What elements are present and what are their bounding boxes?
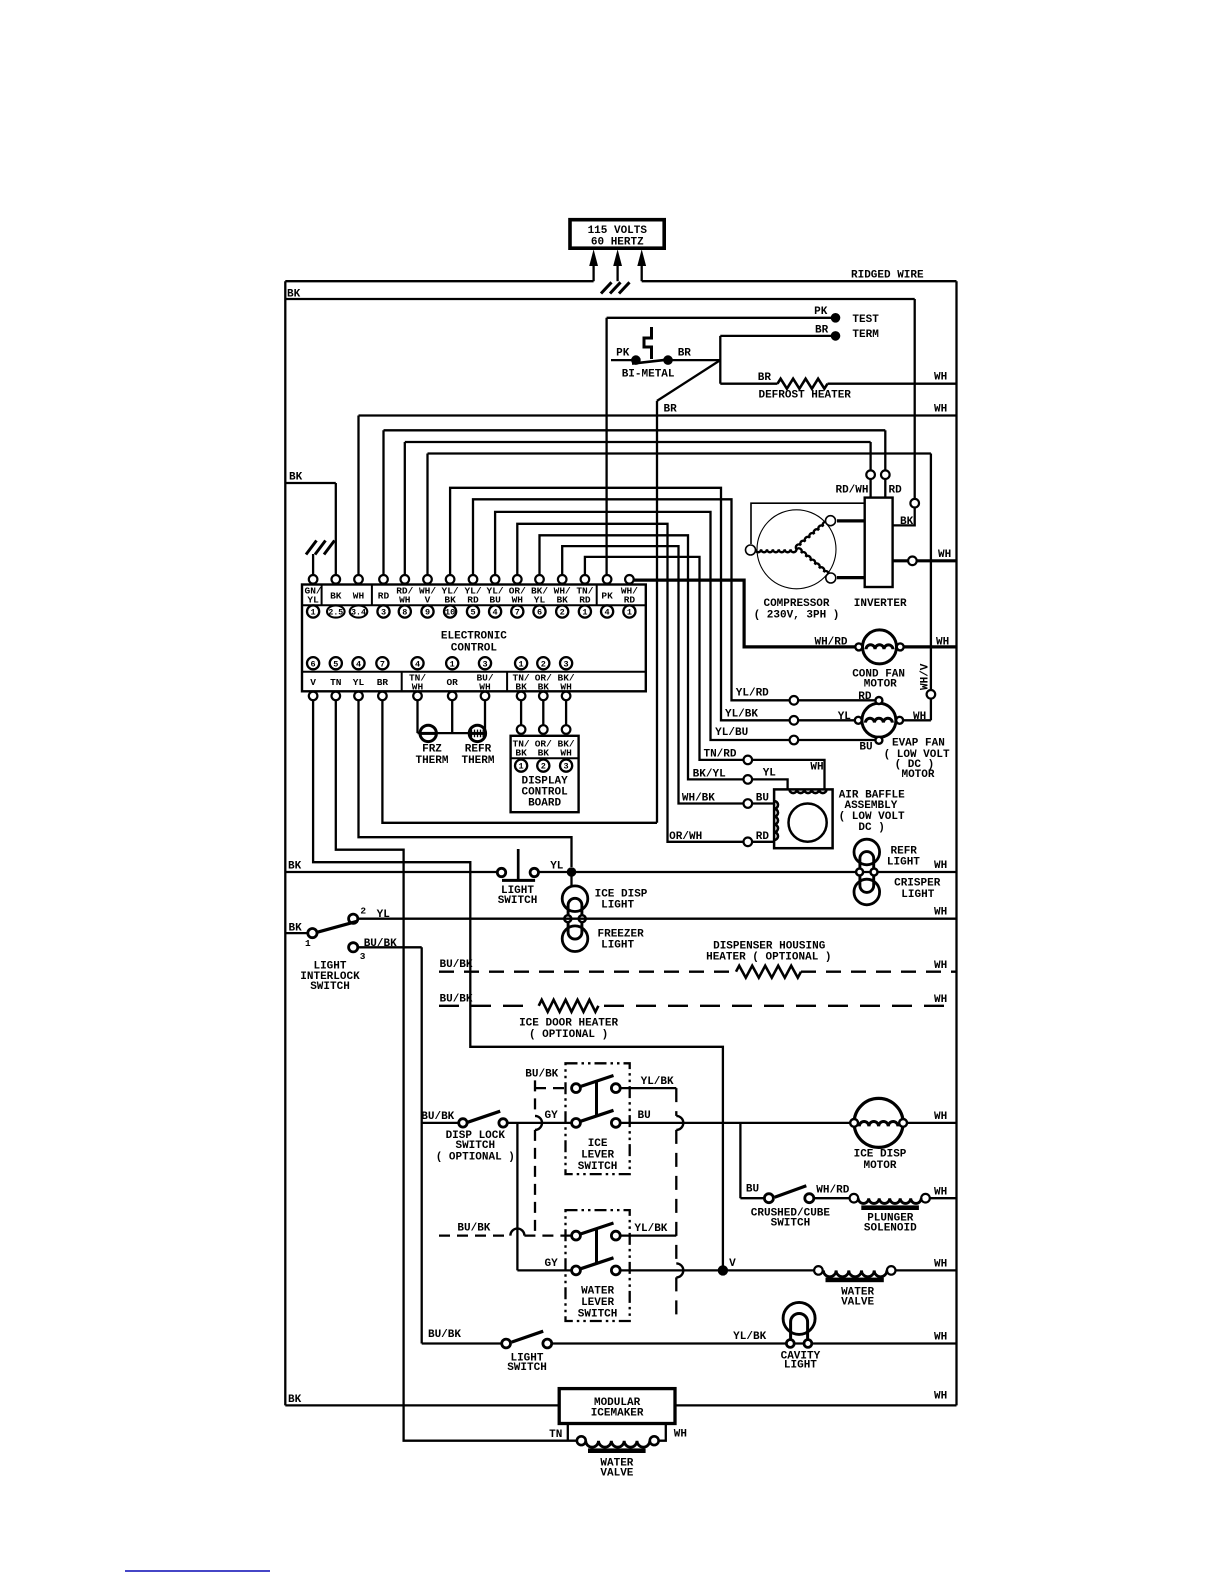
svg-text:4: 4 xyxy=(605,608,610,618)
svg-text:10: 10 xyxy=(445,608,455,618)
svg-text:BR: BR xyxy=(678,347,692,359)
svg-text:V: V xyxy=(310,677,316,688)
svg-text:BK: BK xyxy=(515,748,527,759)
svg-text:BK: BK xyxy=(444,595,456,606)
svg-text:LIGHT: LIGHT xyxy=(784,1360,817,1372)
svg-text:VALVE: VALVE xyxy=(600,1467,633,1479)
svg-text:INVERTER: INVERTER xyxy=(854,598,907,610)
svg-text:BU/BK: BU/BK xyxy=(428,1329,461,1341)
svg-text:WH: WH xyxy=(934,907,947,919)
svg-text:CRISPER: CRISPER xyxy=(894,878,941,890)
svg-text:1: 1 xyxy=(519,762,524,772)
svg-text:WH: WH xyxy=(934,1111,947,1123)
svg-text:BK: BK xyxy=(538,748,550,759)
svg-text:2: 2 xyxy=(541,659,546,669)
svg-text:LIGHT: LIGHT xyxy=(887,857,920,869)
svg-text:6: 6 xyxy=(311,659,316,669)
svg-text:LIGHT: LIGHT xyxy=(901,889,934,901)
svg-text:WH/RD: WH/RD xyxy=(816,1184,849,1196)
svg-text:YL: YL xyxy=(353,677,365,688)
svg-text:WH: WH xyxy=(479,681,491,692)
svg-text:BK: BK xyxy=(287,289,301,301)
svg-text:WH: WH xyxy=(353,590,365,601)
svg-text:WH: WH xyxy=(938,549,951,561)
svg-text:WH: WH xyxy=(934,372,947,384)
svg-text:BR: BR xyxy=(815,324,829,336)
svg-text:V: V xyxy=(425,595,431,606)
svg-text:WH: WH xyxy=(934,860,947,872)
svg-text:BR: BR xyxy=(758,372,772,384)
svg-text:2: 2 xyxy=(360,906,366,917)
svg-text:1: 1 xyxy=(311,608,316,618)
svg-text:WH: WH xyxy=(810,762,823,774)
svg-text:YL: YL xyxy=(550,861,564,873)
svg-text:4: 4 xyxy=(356,659,361,669)
svg-text:WH: WH xyxy=(913,711,926,723)
svg-text:WH: WH xyxy=(934,1332,947,1344)
svg-text:TN: TN xyxy=(330,677,342,688)
svg-text:ICE DISP: ICE DISP xyxy=(854,1149,907,1161)
svg-text:WH: WH xyxy=(934,1259,947,1271)
svg-text:YL/BU: YL/BU xyxy=(715,727,748,739)
svg-text:SWITCH: SWITCH xyxy=(771,1217,811,1229)
svg-text:BU: BU xyxy=(756,793,769,805)
svg-text:MOTOR: MOTOR xyxy=(901,769,934,781)
svg-text:7: 7 xyxy=(380,659,385,669)
svg-text:YL: YL xyxy=(377,909,391,921)
svg-text:3: 3 xyxy=(360,951,366,962)
svg-text:WH: WH xyxy=(934,1391,947,1403)
svg-text:EVAP FAN: EVAP FAN xyxy=(892,738,945,750)
svg-text:BK: BK xyxy=(556,595,568,606)
svg-text:BOARD: BOARD xyxy=(528,798,561,810)
svg-text:HEATER ( OPTIONAL ): HEATER ( OPTIONAL ) xyxy=(706,952,831,964)
svg-text:WH/RD: WH/RD xyxy=(814,637,847,649)
svg-text:GY: GY xyxy=(544,1258,558,1270)
svg-text:BK: BK xyxy=(288,1394,302,1406)
svg-text:YL/RD: YL/RD xyxy=(736,688,769,700)
svg-text:1: 1 xyxy=(627,608,632,618)
svg-text:60 HERTZ: 60 HERTZ xyxy=(591,237,644,249)
svg-text:BU/BK: BU/BK xyxy=(440,959,473,971)
svg-text:YL: YL xyxy=(534,595,546,606)
svg-text:9: 9 xyxy=(425,608,430,618)
svg-text:DC ): DC ) xyxy=(858,822,884,834)
svg-text:RD: RD xyxy=(579,595,591,606)
svg-text:MOTOR: MOTOR xyxy=(864,678,897,690)
svg-text:2: 2 xyxy=(541,762,546,772)
svg-text:4: 4 xyxy=(415,659,420,669)
svg-text:SWITCH: SWITCH xyxy=(455,1140,495,1152)
svg-text:ELECTRONIC: ELECTRONIC xyxy=(441,631,507,643)
svg-text:BK/YL: BK/YL xyxy=(693,768,726,780)
svg-text:WH: WH xyxy=(412,681,424,692)
svg-text:COMPRESSOR: COMPRESSOR xyxy=(763,598,829,610)
svg-text:BR: BR xyxy=(377,677,389,688)
svg-text:BU/BK: BU/BK xyxy=(525,1069,558,1081)
svg-text:RD: RD xyxy=(378,590,390,601)
svg-text:BU: BU xyxy=(746,1184,759,1196)
svg-text:THERM: THERM xyxy=(415,755,448,767)
svg-text:RD/WH: RD/WH xyxy=(835,485,868,497)
svg-text:GY: GY xyxy=(544,1110,558,1122)
svg-text:BK: BK xyxy=(330,590,342,601)
svg-text:YL/BK: YL/BK xyxy=(725,708,758,720)
svg-text:CONTROL: CONTROL xyxy=(451,642,498,654)
svg-text:SWITCH: SWITCH xyxy=(498,895,538,907)
svg-text:RIDGED WIRE: RIDGED WIRE xyxy=(851,270,924,282)
svg-text:WH: WH xyxy=(934,960,947,972)
svg-text:115 VOLTS: 115 VOLTS xyxy=(588,225,648,237)
svg-text:BU: BU xyxy=(638,1110,651,1122)
svg-text:( 230V, 3PH ): ( 230V, 3PH ) xyxy=(754,610,840,622)
svg-text:SWITCH: SWITCH xyxy=(578,1161,618,1173)
svg-text:8: 8 xyxy=(402,608,407,618)
svg-text:SWITCH: SWITCH xyxy=(507,1362,547,1374)
svg-text:RD: RD xyxy=(624,595,636,606)
svg-text:WH/V: WH/V xyxy=(920,663,932,690)
svg-text:SWITCH: SWITCH xyxy=(578,1309,618,1321)
svg-text:TEST: TEST xyxy=(852,314,879,326)
svg-text:2.5: 2.5 xyxy=(328,609,343,618)
svg-text:RD: RD xyxy=(756,831,770,843)
svg-text:1: 1 xyxy=(582,608,587,618)
svg-text:REFR: REFR xyxy=(465,744,492,756)
svg-text:MOTOR: MOTOR xyxy=(863,1160,896,1172)
svg-text:BU/BK: BU/BK xyxy=(440,993,473,1005)
svg-text:WH/BK: WH/BK xyxy=(682,793,715,805)
svg-text:TERM: TERM xyxy=(852,329,879,341)
svg-text:6: 6 xyxy=(537,608,542,618)
svg-text:PK: PK xyxy=(601,590,613,601)
svg-text:3: 3 xyxy=(564,762,569,772)
svg-text:3: 3 xyxy=(482,659,487,669)
svg-text:YL/BK: YL/BK xyxy=(634,1223,667,1235)
svg-text:YL/BK: YL/BK xyxy=(641,1076,674,1088)
svg-text:WH: WH xyxy=(512,595,524,606)
svg-text:RD: RD xyxy=(467,595,479,606)
svg-text:WH: WH xyxy=(399,595,411,606)
svg-text:ICEMAKER: ICEMAKER xyxy=(591,1408,644,1420)
svg-text:TN/RD: TN/RD xyxy=(703,749,736,761)
svg-text:OR/WH: OR/WH xyxy=(669,831,702,843)
svg-text:LIGHT: LIGHT xyxy=(601,900,634,912)
svg-text:SOLENOID: SOLENOID xyxy=(864,1223,917,1235)
svg-text:1: 1 xyxy=(519,659,524,669)
svg-text:2: 2 xyxy=(560,608,565,618)
svg-text:THERM: THERM xyxy=(461,755,494,767)
svg-text:RD: RD xyxy=(889,485,903,497)
svg-text:4: 4 xyxy=(493,608,498,618)
svg-text:WH: WH xyxy=(560,748,572,759)
svg-text:TN: TN xyxy=(549,1429,562,1441)
svg-text:YL: YL xyxy=(763,768,777,780)
svg-text:WH: WH xyxy=(934,994,947,1006)
svg-text:YL/BK: YL/BK xyxy=(733,1331,766,1343)
svg-text:OR: OR xyxy=(446,677,458,688)
svg-text:3: 3 xyxy=(564,659,569,669)
svg-text:BU/BK: BU/BK xyxy=(421,1111,454,1123)
svg-text:DEFROST HEATER: DEFROST HEATER xyxy=(758,390,851,402)
svg-text:LEVER: LEVER xyxy=(581,1150,614,1162)
svg-text:WH: WH xyxy=(560,681,572,692)
svg-text:BU: BU xyxy=(859,741,872,753)
svg-text:3: 3 xyxy=(381,608,386,618)
svg-text:1: 1 xyxy=(450,659,455,669)
svg-text:WATER: WATER xyxy=(581,1286,614,1298)
svg-text:ICE: ICE xyxy=(588,1138,608,1150)
svg-text:BI-METAL: BI-METAL xyxy=(622,369,675,381)
svg-text:V: V xyxy=(729,1258,736,1270)
svg-text:5: 5 xyxy=(333,659,338,669)
svg-text:BK: BK xyxy=(289,472,303,484)
svg-text:( OPTIONAL ): ( OPTIONAL ) xyxy=(436,1152,515,1164)
svg-text:LIGHT: LIGHT xyxy=(601,940,634,952)
svg-text:BK: BK xyxy=(289,923,303,935)
svg-text:LEVER: LEVER xyxy=(581,1297,614,1309)
svg-text:BK: BK xyxy=(900,516,914,528)
svg-text:BU: BU xyxy=(489,595,501,606)
svg-text:7: 7 xyxy=(515,608,520,618)
svg-text:ICE DOOR HEATER: ICE DOOR HEATER xyxy=(519,1018,618,1030)
svg-text:BK: BK xyxy=(515,681,527,692)
svg-text:BR: BR xyxy=(664,404,678,416)
svg-text:1: 1 xyxy=(305,938,311,949)
svg-text:WH: WH xyxy=(934,1187,947,1199)
svg-text:FRZ: FRZ xyxy=(422,744,442,756)
svg-text:PK: PK xyxy=(616,347,630,359)
svg-text:( OPTIONAL ): ( OPTIONAL ) xyxy=(529,1029,608,1041)
svg-text:5: 5 xyxy=(470,608,475,618)
svg-text:BK: BK xyxy=(288,861,302,873)
svg-text:3.4: 3.4 xyxy=(351,609,366,618)
svg-text:BU/BK: BU/BK xyxy=(457,1223,490,1235)
svg-text:PK: PK xyxy=(814,306,828,318)
svg-text:SWITCH: SWITCH xyxy=(310,981,350,993)
svg-text:YL: YL xyxy=(307,595,319,606)
svg-text:WH: WH xyxy=(934,404,947,416)
svg-text:WH: WH xyxy=(936,637,949,649)
svg-text:WH: WH xyxy=(674,1429,687,1441)
svg-text:VALVE: VALVE xyxy=(841,1297,874,1309)
svg-text:BK: BK xyxy=(538,681,550,692)
